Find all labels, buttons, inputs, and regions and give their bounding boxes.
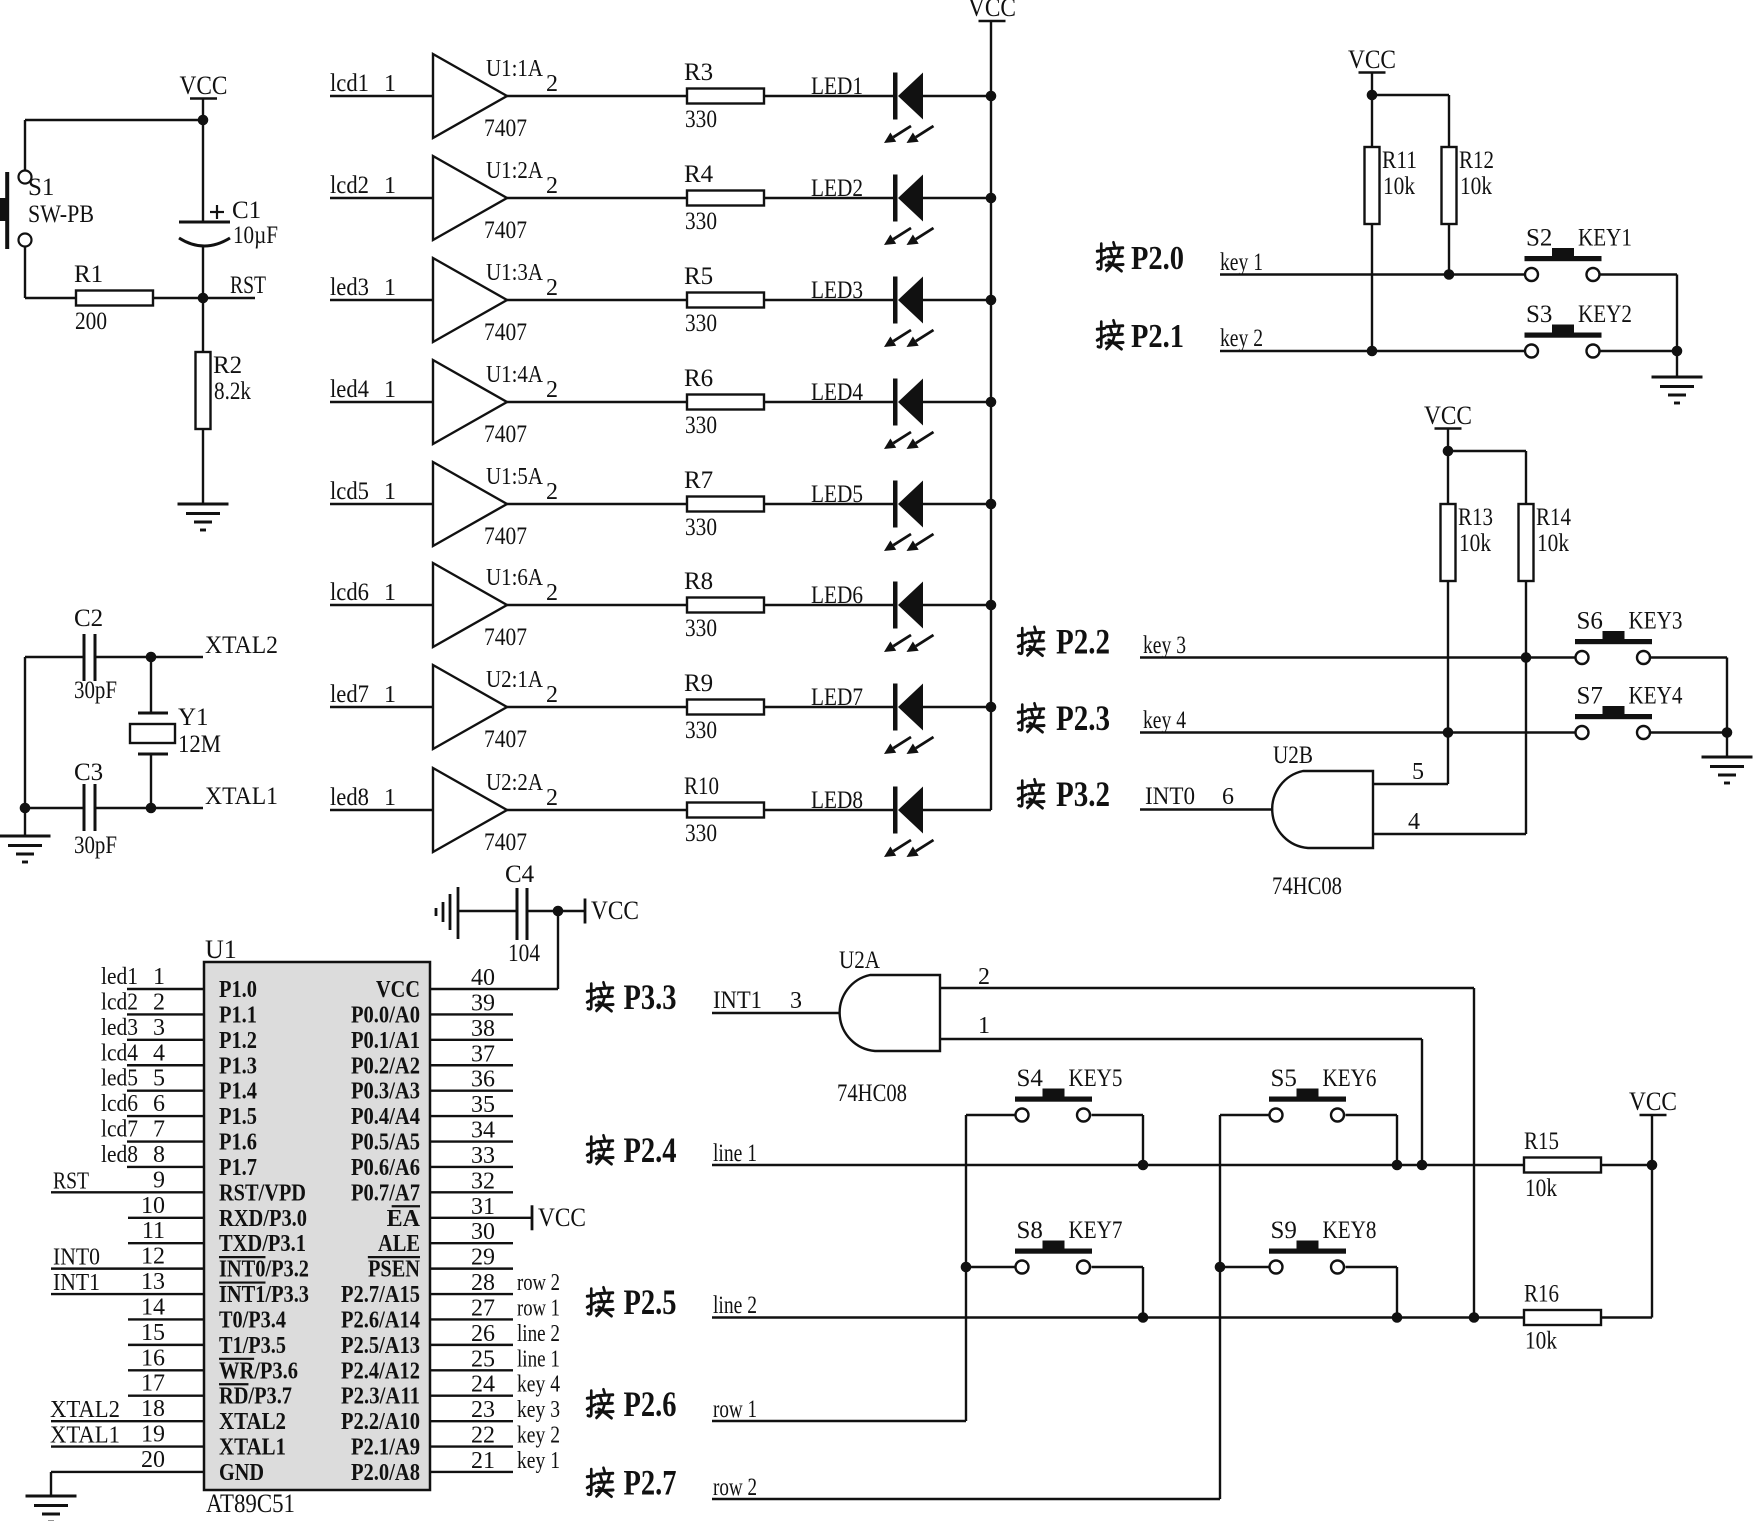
wire U2A pin 1 <box>940 1013 1422 1165</box>
svg-text:1: 1 <box>384 173 396 199</box>
svg-text:13: 13 <box>141 1269 165 1295</box>
svg-text:VCC: VCC <box>1348 45 1396 74</box>
svg-text:LED5: LED5 <box>811 481 863 508</box>
svg-text:25: 25 <box>471 1346 495 1372</box>
svg-text:LED1: LED1 <box>811 73 863 100</box>
svg-text:key 4: key 4 <box>1143 707 1186 734</box>
wire R1 to RST node <box>153 297 255 299</box>
svg-text:2: 2 <box>546 479 558 505</box>
svg-text:30pF: 30pF <box>74 832 117 859</box>
svg-text:330: 330 <box>685 717 717 744</box>
pin 32 <box>430 1168 513 1194</box>
svg-text:U1:5A: U1:5A <box>486 464 544 490</box>
wire U2B pin 5 <box>1373 733 1448 786</box>
svg-text:P0.6/A6: P0.6/A6 <box>351 1155 420 1181</box>
svg-text:R14: R14 <box>1536 504 1571 531</box>
svg-text:P1.4: P1.4 <box>219 1079 257 1105</box>
capacitor C4 104 <box>505 861 585 967</box>
node C4/VCC junction <box>553 906 564 989</box>
svg-text:XTAL2: XTAL2 <box>50 1397 120 1423</box>
svg-text:19: 19 <box>141 1422 165 1448</box>
switch S9 KEY8 <box>1269 1217 1377 1274</box>
svg-text:lcd2: lcd2 <box>330 172 369 199</box>
pin 38 <box>430 1016 513 1042</box>
LED LED1 <box>811 73 934 144</box>
svg-text:31: 31 <box>471 1194 495 1220</box>
svg-text:key 4: key 4 <box>517 1372 560 1398</box>
wire R5 to LED3 <box>764 299 893 301</box>
wire S5/S9 left rail <box>1215 1115 1270 1499</box>
svg-text:P2.4: P2.4 <box>624 1130 677 1170</box>
svg-text:330: 330 <box>685 615 717 642</box>
resistor R16 10k <box>1524 1281 1652 1355</box>
wire U1:3A output to R5 <box>507 299 687 301</box>
svg-text:S9: S9 <box>1271 1217 1297 1244</box>
pin 4 lcd4 <box>101 1040 204 1066</box>
svg-text:lcd6: lcd6 <box>330 579 369 606</box>
svg-text:10k: 10k <box>1383 173 1415 200</box>
svg-text:P0.7/A7: P0.7/A7 <box>351 1180 420 1206</box>
svg-text:1: 1 <box>384 580 396 606</box>
svg-text:lcd1: lcd1 <box>330 70 369 97</box>
svg-text:led3: led3 <box>330 274 369 301</box>
svg-text:36: 36 <box>471 1067 495 1093</box>
wire LED2 to VCC rail <box>923 193 996 204</box>
svg-text:SW-PB: SW-PB <box>28 201 94 228</box>
capacitor C1 10uF <box>179 120 278 298</box>
svg-text:P2.6/A14: P2.6/A14 <box>341 1307 420 1333</box>
svg-text:KEY7: KEY7 <box>1069 1217 1123 1244</box>
power VCC (key pullups 1) <box>1348 45 1396 95</box>
svg-text:key 1: key 1 <box>517 1448 560 1474</box>
pin 36 <box>430 1067 513 1093</box>
pin 31 EA <box>430 1194 532 1220</box>
svg-text:KEY8: KEY8 <box>1323 1217 1377 1244</box>
label 接 P2.4 <box>587 1130 676 1170</box>
svg-text:P1.6: P1.6 <box>219 1130 257 1156</box>
svg-text:XTAL1: XTAL1 <box>205 783 278 810</box>
wire xtal left rail <box>20 657 31 836</box>
svg-text:R12: R12 <box>1459 147 1494 174</box>
svg-text:30pF: 30pF <box>74 677 117 704</box>
pin 8 led8 <box>101 1142 204 1168</box>
svg-text:1: 1 <box>384 479 396 505</box>
svg-text:2: 2 <box>546 275 558 301</box>
ground (C4) <box>436 887 516 939</box>
svg-text:33: 33 <box>471 1143 495 1169</box>
svg-text:R15: R15 <box>1524 1128 1559 1155</box>
LED LED2 <box>811 175 934 246</box>
svg-text:led1: led1 <box>101 964 138 990</box>
pin 25 <box>430 1346 560 1372</box>
svg-text:30: 30 <box>471 1219 495 1245</box>
ground (reset) <box>178 504 229 530</box>
LED LED5 <box>811 481 934 552</box>
svg-text:LED6: LED6 <box>811 582 863 609</box>
svg-text:VCC: VCC <box>968 0 1016 22</box>
svg-text:1: 1 <box>384 377 396 403</box>
resistor R13 10k <box>1441 504 1494 733</box>
svg-text:P1.0: P1.0 <box>219 977 257 1003</box>
wire S6 to ground rail <box>1650 658 1728 733</box>
buffer U1:4A 7407 <box>433 360 558 448</box>
svg-text:INT0: INT0 <box>1145 783 1195 810</box>
svg-text:330: 330 <box>685 514 717 541</box>
capacitor C3 30pF <box>25 759 203 859</box>
svg-text:R7: R7 <box>684 467 713 494</box>
switch S4 KEY5 <box>1015 1065 1123 1122</box>
wire R8 to LED6 <box>764 604 893 606</box>
pin 16 <box>128 1345 204 1371</box>
svg-text:led5: led5 <box>101 1066 138 1092</box>
svg-text:11: 11 <box>142 1218 165 1244</box>
wire U1:5A output to R7 <box>507 503 687 505</box>
svg-text:U1:6A: U1:6A <box>486 565 544 591</box>
svg-text:29: 29 <box>471 1245 495 1271</box>
switch S2 KEY1 <box>1525 225 1633 282</box>
svg-text:2: 2 <box>153 989 165 1015</box>
wire U1:4A output to R6 <box>507 401 687 403</box>
svg-text:7: 7 <box>153 1117 165 1143</box>
svg-text:24: 24 <box>471 1372 495 1398</box>
svg-text:10µF: 10µF <box>233 222 278 249</box>
svg-text:P0.3/A3: P0.3/A3 <box>351 1079 420 1105</box>
wire S5 to line 1 <box>1346 1115 1398 1165</box>
svg-text:15: 15 <box>141 1320 165 1346</box>
switch S1 SW-PB <box>0 171 94 250</box>
and-gate U2A 74HC08 <box>837 947 940 1107</box>
resistor R12 10k <box>1442 147 1495 275</box>
svg-text:38: 38 <box>471 1016 495 1042</box>
wire LED6 to VCC rail <box>923 600 996 611</box>
svg-text:R3: R3 <box>684 59 713 86</box>
svg-text:3: 3 <box>153 1015 165 1041</box>
switch S8 KEY7 <box>1015 1217 1123 1274</box>
svg-text:XTAL2: XTAL2 <box>205 632 278 659</box>
wire R3 to LED1 <box>764 95 893 97</box>
wire input lcd6 <box>330 579 433 606</box>
pin 19 XTAL1 <box>50 1422 204 1449</box>
svg-text:10: 10 <box>141 1193 165 1219</box>
wire U1:6A output to R8 <box>507 604 687 606</box>
svg-text:7407: 7407 <box>484 217 527 244</box>
svg-text:P2.2/A10: P2.2/A10 <box>341 1409 420 1435</box>
svg-text:104: 104 <box>508 940 540 967</box>
power VCC (LED rail) <box>968 0 1016 810</box>
svg-text:R4: R4 <box>684 161 714 188</box>
svg-text:330: 330 <box>685 106 717 133</box>
svg-text:R9: R9 <box>684 670 713 697</box>
wire VCC to R13/R14 <box>1443 446 1526 504</box>
svg-text:17: 17 <box>141 1371 165 1397</box>
pin 5 led5 <box>101 1066 204 1092</box>
node XTAL2 <box>146 632 278 662</box>
svg-text:U1:3A: U1:3A <box>486 260 544 286</box>
svg-text:5: 5 <box>153 1066 165 1092</box>
svg-text:key 3: key 3 <box>1143 632 1186 659</box>
label 接 P2.7 <box>587 1463 676 1503</box>
resistor R3 330 <box>684 59 764 133</box>
wire input led8 <box>330 784 433 811</box>
svg-text:AT89C51: AT89C51 <box>206 1489 295 1518</box>
svg-text:9: 9 <box>153 1167 165 1193</box>
svg-text:line 1: line 1 <box>713 1140 757 1167</box>
svg-text:RD/P3.7: RD/P3.7 <box>219 1384 292 1410</box>
svg-text:7407: 7407 <box>484 726 527 753</box>
svg-text:P0.2/A2: P0.2/A2 <box>351 1053 420 1079</box>
svg-text:P2.0/A8: P2.0/A8 <box>351 1460 420 1486</box>
wire line 2 <box>712 1292 1524 1323</box>
wire S9 to line 2 <box>1346 1267 1398 1318</box>
svg-text:26: 26 <box>471 1321 495 1347</box>
svg-text:40: 40 <box>471 965 495 991</box>
svg-text:10k: 10k <box>1537 530 1569 557</box>
svg-text:P2.3: P2.3 <box>1056 698 1110 738</box>
svg-text:4: 4 <box>1408 809 1420 835</box>
svg-text:KEY1: KEY1 <box>1578 225 1632 252</box>
svg-text:6: 6 <box>1222 784 1234 810</box>
svg-text:32: 32 <box>471 1168 495 1194</box>
svg-text:34: 34 <box>471 1118 495 1144</box>
svg-text:ALE: ALE <box>378 1231 420 1257</box>
wire R9 to LED7 <box>764 706 893 708</box>
svg-text:KEY4: KEY4 <box>1629 683 1683 710</box>
resistor R10 330 <box>684 773 764 847</box>
wire S2 to ground rail <box>1600 275 1678 352</box>
svg-text:12: 12 <box>141 1244 165 1270</box>
svg-text:PSEN: PSEN <box>368 1257 421 1283</box>
svg-text:1: 1 <box>384 71 396 97</box>
svg-text:RST/VPD: RST/VPD <box>219 1180 306 1206</box>
svg-text:led4: led4 <box>330 376 369 403</box>
resistor R14 10k <box>1519 504 1572 658</box>
wire U2A pin 2 <box>940 964 1474 1318</box>
svg-text:lcd6: lcd6 <box>101 1091 138 1117</box>
svg-text:330: 330 <box>685 820 717 847</box>
svg-text:14: 14 <box>141 1294 165 1320</box>
LED LED8 <box>811 787 934 858</box>
svg-text:P2.3/A11: P2.3/A11 <box>341 1384 420 1410</box>
svg-text:200: 200 <box>75 308 107 335</box>
svg-text:U1: U1 <box>205 935 237 964</box>
LED LED6 <box>811 582 934 653</box>
svg-text:line 2: line 2 <box>517 1321 560 1347</box>
LED LED3 <box>811 277 934 348</box>
svg-text:S6: S6 <box>1577 608 1603 635</box>
svg-text:P0.0/A0: P0.0/A0 <box>351 1002 420 1028</box>
svg-text:Y1: Y1 <box>178 704 209 731</box>
svg-text:7407: 7407 <box>484 115 527 142</box>
svg-text:XTAL1: XTAL1 <box>219 1435 286 1461</box>
power VCC (key pullups 2) <box>1424 401 1472 451</box>
svg-text:U2A: U2A <box>839 947 880 974</box>
svg-text:2: 2 <box>978 964 990 990</box>
svg-text:3: 3 <box>790 988 802 1014</box>
svg-text:RST: RST <box>230 272 266 299</box>
svg-text:10k: 10k <box>1525 1175 1557 1202</box>
op-amp U1 AT89C51 chip body <box>204 935 430 1518</box>
label 接 P2.1 <box>1097 318 1184 355</box>
svg-text:WR/P3.6: WR/P3.6 <box>219 1358 298 1384</box>
pin 28 <box>430 1270 560 1296</box>
pin 18 XTAL2 <box>50 1396 204 1423</box>
pin 27 <box>430 1295 560 1321</box>
svg-text:P2.4/A12: P2.4/A12 <box>341 1358 420 1384</box>
wire key 2 <box>1220 325 1525 356</box>
svg-text:4: 4 <box>153 1040 165 1066</box>
svg-text:330: 330 <box>685 412 717 439</box>
buffer U2:1A 7407 <box>433 665 558 753</box>
svg-text:1: 1 <box>978 1013 990 1039</box>
svg-text:P2.7: P2.7 <box>624 1463 677 1503</box>
power VCC (EA pin31) <box>532 1203 586 1232</box>
wire INT1 pin 3 <box>712 987 874 1014</box>
svg-text:LED3: LED3 <box>811 277 863 304</box>
and-gate U2B 74HC08 <box>1272 742 1373 900</box>
crystal Y1 12M <box>130 657 221 808</box>
svg-text:LED7: LED7 <box>811 684 863 711</box>
svg-text:P0.5/A5: P0.5/A5 <box>351 1130 420 1156</box>
pin 30 <box>430 1219 513 1245</box>
resistor R11 10k <box>1365 147 1418 351</box>
svg-text:7407: 7407 <box>484 421 527 448</box>
svg-text:R8: R8 <box>684 568 713 595</box>
svg-text:P1.1: P1.1 <box>219 1002 257 1028</box>
svg-text:S5: S5 <box>1271 1065 1297 1092</box>
pin 21 <box>430 1448 560 1474</box>
label 接 P2.3 <box>1018 698 1110 738</box>
svg-text:led8: led8 <box>101 1142 138 1168</box>
pin 1 led1 <box>101 964 204 990</box>
svg-text:line 1: line 1 <box>517 1346 560 1372</box>
svg-text:T1/P3.5: T1/P3.5 <box>219 1333 286 1359</box>
wire key 3 <box>1140 632 1576 663</box>
svg-text:P1.5: P1.5 <box>219 1104 257 1130</box>
ground (U1 GND) <box>26 1496 77 1521</box>
wire input lcd5 <box>330 478 433 505</box>
power VCC (reset circuit) <box>180 71 228 120</box>
svg-text:XTAL1: XTAL1 <box>50 1423 120 1449</box>
svg-text:TXD/P3.1: TXD/P3.1 <box>219 1231 306 1257</box>
wire LED4 to VCC rail <box>923 397 996 408</box>
svg-text:S4: S4 <box>1017 1065 1044 1092</box>
svg-text:21: 21 <box>471 1448 495 1474</box>
svg-text:XTAL2: XTAL2 <box>219 1409 286 1435</box>
resistor R9 330 <box>684 670 764 744</box>
resistor R4 330 <box>684 161 764 235</box>
wire S4/S8 left rail <box>961 1115 1016 1421</box>
wire S8 to line 2 <box>1092 1267 1144 1318</box>
svg-text:330: 330 <box>685 310 717 337</box>
wire input led7 <box>330 681 433 708</box>
svg-text:7407: 7407 <box>484 829 527 856</box>
svg-text:P2.6: P2.6 <box>624 1384 677 1424</box>
svg-text:LED8: LED8 <box>811 787 863 814</box>
svg-text:S1: S1 <box>28 174 54 201</box>
label 接 P2.2 <box>1018 622 1110 662</box>
svg-text:KEY5: KEY5 <box>1069 1065 1123 1092</box>
svg-text:S7: S7 <box>1577 683 1603 710</box>
svg-text:R16: R16 <box>1524 1281 1559 1308</box>
svg-text:27: 27 <box>471 1295 495 1321</box>
pin 20 GND <box>51 1447 204 1496</box>
resistor R15 10k <box>1524 1128 1652 1202</box>
switch S6 KEY3 <box>1575 608 1683 665</box>
svg-text:S3: S3 <box>1526 301 1552 328</box>
svg-text:P1.3: P1.3 <box>219 1053 257 1079</box>
svg-text:INT0/P3.2: INT0/P3.2 <box>219 1257 309 1283</box>
svg-text:row 2: row 2 <box>517 1270 560 1296</box>
svg-text:12M: 12M <box>178 731 221 758</box>
label 接 P2.0 <box>1097 240 1184 277</box>
wire key 1 <box>1220 249 1525 280</box>
svg-text:LED2: LED2 <box>811 175 863 202</box>
pin 13 INT1 <box>51 1269 204 1296</box>
svg-text:7407: 7407 <box>484 523 527 550</box>
svg-text:P2.1/A9: P2.1/A9 <box>351 1435 420 1461</box>
resistor R6 330 <box>684 365 764 439</box>
switch S7 KEY4 <box>1575 683 1683 740</box>
svg-text:R2: R2 <box>213 352 242 379</box>
svg-text:C2: C2 <box>74 605 103 632</box>
svg-text:P3.2: P3.2 <box>1056 774 1110 814</box>
pin 35 <box>430 1092 513 1118</box>
node XTAL1 <box>146 783 278 813</box>
svg-text:8: 8 <box>153 1142 165 1168</box>
buffer U1:6A 7407 <box>433 563 558 651</box>
svg-text:R10: R10 <box>684 773 719 800</box>
resistor R2 8.2k <box>196 298 252 504</box>
svg-text:1: 1 <box>384 275 396 301</box>
svg-text:key 2: key 2 <box>1220 325 1263 352</box>
capacitor C2 30pF <box>25 605 203 704</box>
svg-text:led8: led8 <box>330 784 369 811</box>
resistor R8 330 <box>684 568 764 642</box>
svg-text:U2:1A: U2:1A <box>486 667 544 693</box>
buffer U1:1A 7407 <box>433 54 558 142</box>
node RST (reset) <box>198 272 266 303</box>
svg-text:line 2: line 2 <box>713 1292 757 1319</box>
svg-text:U1:2A: U1:2A <box>486 158 544 184</box>
svg-text:R13: R13 <box>1458 504 1493 531</box>
svg-text:VCC: VCC <box>591 896 639 925</box>
wire S1 to R1 <box>25 247 76 299</box>
svg-text:RST: RST <box>53 1168 89 1194</box>
svg-text:row 1: row 1 <box>713 1396 757 1423</box>
svg-text:6: 6 <box>153 1091 165 1117</box>
svg-text:R6: R6 <box>684 365 713 392</box>
svg-text:74HC08: 74HC08 <box>837 1080 907 1107</box>
svg-text:key 1: key 1 <box>1220 249 1263 276</box>
svg-text:P2.7/A15: P2.7/A15 <box>341 1282 420 1308</box>
label 接 P2.5 <box>587 1282 676 1322</box>
wire LED8 to VCC rail <box>923 809 991 811</box>
svg-text:S8: S8 <box>1017 1217 1043 1244</box>
buffer U1:5A 7407 <box>433 462 558 550</box>
svg-text:lcd7: lcd7 <box>101 1117 138 1143</box>
svg-text:2: 2 <box>546 71 558 97</box>
svg-text:lcd5: lcd5 <box>330 478 369 505</box>
svg-text:EA: EA <box>387 1206 421 1232</box>
pin 37 <box>430 1041 513 1067</box>
svg-text:28: 28 <box>471 1270 495 1296</box>
svg-text:18: 18 <box>141 1396 165 1422</box>
svg-text:P0.1/A1: P0.1/A1 <box>351 1028 420 1054</box>
pin 22 <box>430 1423 560 1449</box>
wire LED1 to VCC rail <box>923 91 996 102</box>
wire U2:2A output to R10 <box>507 809 687 811</box>
LED LED4 <box>811 379 934 450</box>
